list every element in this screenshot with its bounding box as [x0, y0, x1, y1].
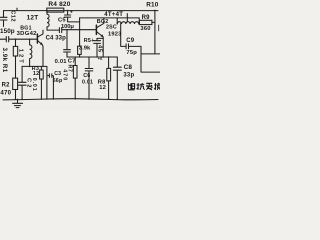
wire drop to R9	[138, 18, 140, 23]
svg-text:+: +	[91, 38, 94, 44]
resistor R8	[108, 57, 110, 68]
svg-text:12: 12	[99, 85, 106, 91]
wire vertical x79.6	[79, 18, 81, 57]
svg-text:470: 470	[0, 89, 11, 96]
svg-text:12: 12	[33, 71, 39, 77]
svg-text:12T: 12T	[27, 15, 39, 22]
svg-text:R2: R2	[2, 82, 11, 88]
svg-text:C6: C6	[83, 73, 90, 79]
wire input	[0, 38, 6, 40]
wire emitter row	[22, 65, 47, 67]
svg-text:C9: C9	[126, 38, 135, 44]
svg-text:C2: C2	[25, 78, 31, 90]
svg-text:0.01: 0.01	[55, 59, 68, 65]
inductor 12T base coil	[30, 39, 32, 66]
resistor R5	[78, 46, 82, 54]
resistor R7	[74, 57, 76, 66]
capacitor C6	[85, 57, 93, 99]
svg-text:R4 820: R4 820	[48, 1, 70, 8]
svg-text:3.9k R1: 3.9k R1	[1, 48, 7, 73]
svg-text:470: 470	[61, 69, 67, 81]
glyph huan	[154, 83, 160, 90]
capacitor C7	[64, 30, 71, 57]
junction dots	[46, 10, 48, 12]
svg-text:R5: R5	[84, 38, 91, 44]
svg-text:150p: 150p	[0, 28, 15, 35]
wire collector node	[47, 29, 59, 31]
svg-text:12T: 12T	[18, 49, 24, 65]
svg-text:C12: C12	[9, 10, 15, 22]
ground	[13, 99, 23, 107]
svg-text:R10: R10	[146, 2, 159, 9]
resistor R2	[13, 78, 18, 89]
svg-text:0.01: 0.01	[31, 78, 37, 92]
svg-text:+6: +6	[98, 56, 104, 61]
wire collector top row	[80, 17, 140, 19]
transformer 4T+4T	[117, 22, 139, 24]
resistor R3	[40, 66, 42, 70]
svg-text:+: +	[70, 10, 73, 16]
impedance transformer box	[141, 46, 160, 72]
resistor R4	[47, 8, 64, 12]
svg-text:4T+4T: 4T+4T	[104, 12, 123, 18]
resistor R1	[15, 39, 17, 46]
capacitor C9	[121, 24, 141, 49]
wire left drop from rail	[3, 11, 5, 17]
svg-text:1923: 1923	[108, 31, 121, 37]
svg-text:3DG42: 3DG42	[17, 31, 38, 37]
svg-text:C5: C5	[58, 17, 66, 23]
svg-text:2SC: 2SC	[106, 25, 117, 31]
wire bottom ground rail	[3, 99, 158, 100]
label 阻抗变换 impedance transformer (hand-drawn CJK strokes)	[128, 83, 160, 90]
wire C4 to BG2 base	[62, 29, 97, 31]
glyph bian	[146, 83, 152, 90]
capacitor C12	[0, 17, 7, 26]
transistor BG1 emitter arrow	[40, 42, 43, 45]
capacitor C2	[18, 66, 26, 99]
wire top supply rail	[4, 10, 159, 12]
resistor R9	[140, 20, 152, 24]
svg-text:C3: C3	[54, 71, 61, 77]
svg-text:100μ: 100μ	[61, 24, 74, 30]
transistor BG2 emitter arrow	[101, 34, 104, 37]
wire emitter bias row	[67, 56, 117, 58]
glyph kang	[137, 83, 145, 90]
svg-text:R7: R7	[67, 65, 73, 73]
capacitor C5 electrolytic	[65, 11, 80, 22]
svg-text:0.01: 0.01	[82, 79, 93, 85]
capacitor emitter electrolytic 45	[94, 38, 104, 57]
svg-text:3.9k: 3.9k	[79, 46, 91, 52]
svg-text:75p: 75p	[126, 50, 137, 56]
svg-text:33p: 33p	[123, 73, 134, 79]
svg-text:360: 360	[140, 26, 150, 32]
svg-text:C4 33p: C4 33p	[46, 36, 67, 42]
wire input to base BG1	[9, 38, 37, 40]
glyph zu	[128, 83, 134, 90]
node supply tick	[16, 8, 18, 10]
node right edge stub	[158, 25, 160, 31]
svg-text:C8: C8	[124, 64, 133, 71]
svg-text:45: 45	[97, 45, 103, 53]
capacitor C3	[47, 66, 54, 99]
wire R10 drop	[154, 10, 156, 54]
capacitor C8	[113, 57, 121, 99]
capacitor 150p	[6, 37, 8, 42]
transistor BG2	[95, 25, 97, 34]
svg-text:R9: R9	[142, 15, 151, 21]
transistor BG1	[36, 34, 38, 43]
inductor 12T collector coil	[47, 11, 49, 31]
capacitor C4	[59, 28, 61, 33]
